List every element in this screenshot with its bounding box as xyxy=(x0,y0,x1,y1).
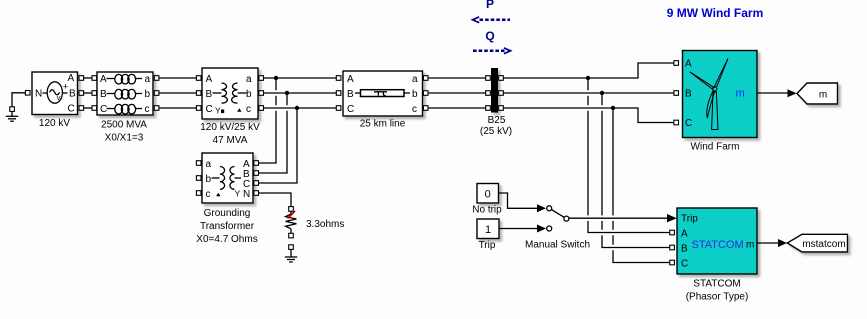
node statcom tap B xyxy=(600,91,604,95)
svg-text:2500 MVA: 2500 MVA xyxy=(101,120,147,131)
ground G2 xyxy=(285,245,297,262)
wire T1 a to line A with tap xyxy=(264,77,337,79)
svg-text:B: B xyxy=(681,244,688,255)
svg-text:C: C xyxy=(685,118,692,129)
svg-text:C: C xyxy=(206,104,213,115)
svg-text:A: A xyxy=(100,74,107,85)
wire tap B to grounding transformer B xyxy=(259,93,288,173)
svg-text:Y: Y xyxy=(215,106,221,116)
wire T1 b to line B with tap xyxy=(264,92,337,94)
STATCOM block xyxy=(670,208,757,303)
node statcom tap C xyxy=(611,106,615,110)
node tap C xyxy=(295,106,299,110)
svg-text:A: A xyxy=(685,59,692,70)
wire STATCOM m to goto tag xyxy=(757,242,779,244)
svg-text:STATCOM: STATCOM xyxy=(692,239,744,251)
svg-text:1: 1 xyxy=(485,224,491,236)
svg-text:c: c xyxy=(145,104,150,115)
svg-text:STATCOM: STATCOM xyxy=(693,279,740,290)
svg-text:a: a xyxy=(412,74,418,85)
svg-text:Grounding: Grounding xyxy=(204,208,251,219)
svg-text:(25 kV): (25 kV) xyxy=(480,126,512,137)
goto tag m xyxy=(797,83,838,104)
svg-text:b: b xyxy=(412,89,418,100)
wire bus a to wind farm A xyxy=(503,63,674,78)
svg-text:C: C xyxy=(681,259,688,270)
svg-text:B: B xyxy=(100,89,107,100)
constant block 0 No trip xyxy=(472,184,502,216)
transformer T1 120 kV/25 kV 47 MVA xyxy=(196,68,263,146)
svg-text:N: N xyxy=(35,89,42,100)
svg-text:a: a xyxy=(145,74,151,85)
wire bus c to wind farm C xyxy=(503,108,674,123)
svg-text:X0=4.7 Ohms: X0=4.7 Ohms xyxy=(196,234,257,245)
wire X1 c to transformer C xyxy=(159,107,197,109)
wire wind farm m to goto tag xyxy=(757,92,788,94)
svg-text:c: c xyxy=(206,189,211,200)
three-phase source impedance block 2500 MVA xyxy=(92,72,159,144)
svg-text:A: A xyxy=(68,73,75,84)
svg-text:25 km line: 25 km line xyxy=(360,119,406,130)
wind turbine icon xyxy=(690,59,728,130)
wire bus b to wind farm B xyxy=(503,92,674,94)
svg-text:Wind Farm: Wind Farm xyxy=(691,142,740,153)
annotation Q arrow xyxy=(473,29,511,54)
svg-text:X0/X1=3: X0/X1=3 xyxy=(105,133,144,144)
wire X1 b to transformer B xyxy=(159,92,197,94)
svg-text:Trip: Trip xyxy=(681,213,698,224)
grounding transformer block xyxy=(196,153,258,245)
wire source B to X1 xyxy=(84,92,92,94)
wire tap to STATCOM B xyxy=(602,93,670,248)
goto tag mstatcom xyxy=(787,234,847,252)
svg-text:a: a xyxy=(246,74,252,85)
wire constant 0 to switch xyxy=(499,193,538,208)
svg-text:No trip: No trip xyxy=(472,205,502,216)
svg-text:B: B xyxy=(685,89,692,100)
manual switch xyxy=(525,206,590,251)
wire T1 c to line C with tap xyxy=(264,107,337,109)
svg-text:b: b xyxy=(145,89,151,100)
svg-text:b: b xyxy=(206,174,212,185)
svg-text:A: A xyxy=(206,74,213,85)
svg-text:Transformer: Transformer xyxy=(200,221,255,232)
ground G1 xyxy=(6,107,18,121)
svg-text:m: m xyxy=(746,240,754,251)
svg-text:c: c xyxy=(246,104,251,115)
svg-text:C: C xyxy=(347,104,354,115)
svg-text:Trip: Trip xyxy=(479,240,496,251)
svg-text:N: N xyxy=(243,189,250,200)
svg-text:mstatcom: mstatcom xyxy=(802,239,845,250)
svg-text:120 kV: 120 kV xyxy=(39,118,70,129)
svg-text:Y: Y xyxy=(235,189,241,199)
svg-text:P: P xyxy=(486,0,494,11)
svg-text:v: v xyxy=(57,93,61,102)
svg-text:A: A xyxy=(681,229,688,240)
wire line c to bus xyxy=(428,107,486,109)
node tap A xyxy=(274,76,278,80)
wire N to ground xyxy=(12,93,26,108)
svg-text:A: A xyxy=(347,74,354,85)
bus B25 xyxy=(480,68,512,137)
wire source A to X1 xyxy=(84,77,92,79)
svg-text:0: 0 xyxy=(485,189,491,201)
svg-text:c: c xyxy=(412,104,417,115)
svg-text:B: B xyxy=(69,89,76,100)
distributed parameter line block 25 km xyxy=(336,71,428,130)
svg-text:C: C xyxy=(68,104,75,115)
voltage source block 120 kV xyxy=(25,72,83,129)
svg-text:B25: B25 xyxy=(488,115,506,126)
wire line b to bus xyxy=(428,92,486,94)
wire source C to X1 xyxy=(84,107,92,109)
svg-text:Manual Switch: Manual Switch xyxy=(525,240,590,251)
svg-text:a: a xyxy=(206,159,212,170)
svg-text:Q: Q xyxy=(485,29,494,43)
wire constant 1 to switch xyxy=(499,228,537,230)
svg-text:C: C xyxy=(100,104,107,115)
resistor R1 3.3ohms xyxy=(286,207,345,238)
svg-text:B: B xyxy=(206,89,213,100)
svg-text:120 kV/25 kV: 120 kV/25 kV xyxy=(200,122,260,133)
svg-text:9 MW Wind Farm: 9 MW Wind Farm xyxy=(667,6,764,20)
wire grounding transformer N to resistor xyxy=(259,193,292,207)
wire switch to STATCOM Trip xyxy=(569,217,668,219)
svg-text:47 MVA: 47 MVA xyxy=(213,135,248,146)
wire tap to STATCOM A xyxy=(588,78,670,233)
wire tap to STATCOM C xyxy=(613,108,670,263)
node statcom tap A xyxy=(586,76,590,80)
wire X1 a to transformer A xyxy=(159,77,197,79)
wire line a to bus xyxy=(428,77,486,79)
node tap B xyxy=(285,91,289,95)
annotation P arrow xyxy=(473,0,510,23)
wire tap C to grounding transformer C xyxy=(259,108,298,183)
svg-text:m: m xyxy=(736,88,745,100)
svg-text:b: b xyxy=(246,89,252,100)
svg-text:m: m xyxy=(819,90,827,101)
wire tap A to grounding transformer A xyxy=(259,78,277,163)
constant block 1 Trip xyxy=(477,219,499,251)
svg-text:B: B xyxy=(347,89,354,100)
svg-text:3.3ohms: 3.3ohms xyxy=(306,219,344,230)
svg-text:(Phasor Type): (Phasor Type) xyxy=(686,292,749,303)
wind farm block xyxy=(674,51,757,153)
